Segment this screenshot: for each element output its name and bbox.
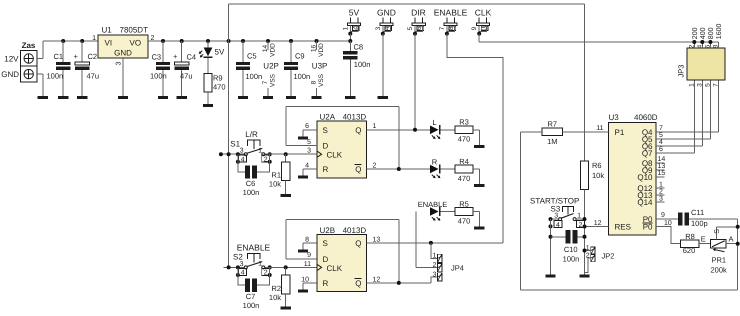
pin 3 label U2A CLK	[307, 148, 311, 155]
resistor R6 10k	[580, 161, 604, 189]
wire JP2 pin 2 to ground	[585, 258, 591, 273]
pin 10 U2B R to ground	[301, 276, 317, 289]
wire LED R to R4	[441, 168, 455, 170]
svg-text:800: 800	[708, 27, 715, 39]
node Q1-DIR	[413, 128, 417, 132]
pin 3 label JP3	[696, 83, 703, 87]
svg-text:100n: 100n	[47, 72, 64, 81]
wire CLK-JP3 pin8	[717, 42, 719, 48]
svg-text:6: 6	[659, 146, 663, 153]
wire Zas GND pin to ground	[37, 74, 43, 96]
svg-text:JP4: JP4	[451, 264, 464, 273]
label GND header	[377, 8, 396, 18]
svg-text:S: S	[714, 229, 721, 234]
resistor R4 470	[455, 157, 473, 183]
wire S2 right to C7	[257, 267, 270, 285]
svg-text:12: 12	[373, 276, 381, 283]
label 400	[700, 27, 707, 39]
pin 5 label JP3	[704, 83, 711, 87]
pin 13 stub Q9	[656, 163, 665, 170]
wire JP4 pin 2 to ENABLE LED	[416, 212, 437, 268]
svg-text:200k: 200k	[711, 266, 728, 275]
capacitor C9 100n	[284, 41, 310, 96]
wire S2 left to C7	[238, 267, 245, 285]
LED L	[430, 118, 441, 139]
svg-text:3: 3	[240, 148, 244, 155]
wire 5V rail	[148, 40, 350, 42]
wire S1 to U2A CLK	[265, 153, 317, 155]
svg-text:8: 8	[712, 44, 719, 48]
svg-text:VSS: VSS	[318, 73, 325, 87]
wire U2B Q output (pin 13)	[367, 236, 503, 243]
svg-text:8: 8	[305, 236, 309, 243]
wire PR1 A to RC node	[726, 235, 738, 244]
svg-text:470: 470	[213, 83, 226, 92]
svg-text:C3: C3	[152, 53, 162, 62]
ground (C1)	[58, 96, 68, 99]
svg-text:R2: R2	[271, 284, 281, 293]
wire PR1 wiper S	[714, 227, 738, 240]
potentiometer PR1 200k	[711, 240, 728, 275]
svg-text:1: 1	[92, 35, 96, 42]
label CLK header	[475, 8, 492, 18]
svg-text:13: 13	[658, 163, 666, 170]
svg-text:470: 470	[458, 216, 471, 225]
LED ENABLE	[418, 200, 448, 221]
svg-text:VDD: VDD	[318, 43, 325, 57]
wire S1 left to C6	[238, 154, 245, 172]
svg-text:C6: C6	[246, 179, 256, 188]
svg-text:U2A: U2A	[320, 113, 336, 122]
pin 4 label JP3	[696, 44, 703, 48]
wire Q7 pin 6 to JP3	[656, 80, 694, 153]
counter U3 4060D	[609, 113, 658, 235]
wire LED L to R3	[441, 129, 455, 131]
svg-text:100n: 100n	[563, 254, 580, 263]
wire JP2 pin 1	[583, 249, 591, 253]
node S2 right	[268, 265, 272, 277]
svg-text:5V: 5V	[215, 48, 225, 57]
node rail-U2P-VDD	[266, 39, 270, 43]
node wiper-RC	[736, 225, 740, 229]
capacitor C7 100n	[243, 279, 260, 311]
svg-text:4: 4	[556, 222, 560, 229]
wire GND header to ground	[382, 34, 384, 97]
svg-text:13: 13	[373, 236, 381, 243]
svg-text:ENABLE: ENABLE	[237, 243, 271, 253]
node CLK-JP3 pin2	[692, 40, 696, 48]
svg-text:470: 470	[458, 135, 471, 144]
wire ENABLE header to Q13 net	[447, 34, 503, 243]
ground (R3)	[474, 145, 484, 148]
svg-text:S2: S2	[233, 253, 243, 262]
svg-text:1: 1	[432, 253, 436, 260]
ground (S3)	[545, 275, 555, 278]
capacitor C5 100n	[236, 41, 262, 96]
svg-text:2: 2	[579, 222, 583, 229]
resistor R9 470	[204, 58, 226, 104]
svg-text:R7: R7	[548, 119, 558, 128]
ground (C9)	[286, 96, 296, 99]
wire P0-bar pin 10 to R8	[656, 220, 680, 244]
node Q2-feedback	[397, 167, 401, 171]
svg-text:Q: Q	[355, 279, 361, 288]
svg-text:2: 2	[264, 156, 268, 163]
svg-text:VDD: VDD	[269, 43, 276, 57]
svg-text:9: 9	[471, 26, 478, 30]
resistor R5 470	[455, 199, 473, 225]
jumper JP2	[586, 245, 615, 262]
LED 5V indicator	[199, 41, 225, 58]
svg-text:4060D: 4060D	[634, 113, 658, 122]
svg-text:1: 1	[688, 83, 695, 87]
node C10 left	[549, 235, 553, 239]
wire R7 to RC node	[520, 132, 542, 290]
resistor R7 1M	[542, 119, 562, 146]
ground (RES net)	[579, 275, 589, 278]
svg-text:R1: R1	[271, 171, 281, 180]
wire DIR net	[414, 34, 416, 130]
label 800	[708, 27, 715, 39]
wire U2B Q-bar output (pin 12)	[367, 276, 431, 283]
pin 4 U2A R to ground	[303, 162, 317, 175]
svg-text:CLK: CLK	[475, 8, 492, 18]
svg-text:1: 1	[659, 181, 663, 188]
svg-text:6: 6	[704, 44, 711, 48]
capacitor C3 100n	[150, 41, 170, 96]
svg-text:12V: 12V	[4, 55, 19, 64]
svg-text:4: 4	[696, 44, 703, 48]
wire frame to R6	[584, 4, 586, 161]
node rail-U3P-VDD	[315, 39, 319, 43]
svg-text:1600: 1600	[716, 24, 723, 40]
wire Q-bar to JP4 pin 3	[431, 277, 438, 283]
ground (R2)	[281, 307, 291, 310]
svg-text:S3: S3	[551, 204, 561, 213]
pin 2 stub Q13	[656, 188, 665, 195]
svg-text:Q7: Q7	[642, 149, 653, 158]
svg-text:100n: 100n	[294, 72, 311, 81]
svg-text:GND: GND	[1, 70, 19, 79]
svg-text:10k: 10k	[592, 171, 604, 180]
node rail-C3	[161, 39, 165, 43]
label ENABLE header	[434, 8, 468, 18]
svg-text:47u: 47u	[87, 72, 100, 81]
ground (GND header)	[378, 96, 388, 99]
svg-text:P1: P1	[615, 128, 625, 137]
wire 5V vertical feed	[228, 4, 230, 267]
wire Q5 pin 5 to JP3	[656, 80, 710, 139]
svg-text:10k: 10k	[269, 180, 281, 189]
ground (C3)	[158, 96, 168, 99]
svg-text:8: 8	[311, 80, 318, 84]
capacitor C4 47u	[173, 41, 196, 96]
pin 14 stub Q8	[656, 156, 665, 163]
svg-text:3: 3	[375, 26, 382, 30]
svg-text:Q: Q	[355, 165, 361, 174]
svg-text:47u: 47u	[180, 72, 193, 81]
svg-text:3: 3	[696, 83, 703, 87]
ground (R1)	[281, 194, 291, 197]
wire S2 row stub	[224, 265, 246, 269]
svg-text:C4: C4	[187, 53, 197, 62]
wire S1 row stub	[219, 152, 245, 156]
svg-text:Q: Q	[355, 239, 361, 248]
label DIR header	[411, 8, 426, 18]
svg-text:+: +	[173, 52, 178, 61]
svg-text:C5: C5	[247, 52, 257, 61]
pin 3 label U1	[116, 61, 123, 65]
header GND pins 3-4	[375, 17, 393, 35]
pin 2 label U1	[151, 35, 155, 42]
pin 8 label JP3	[712, 44, 719, 48]
node CLK-JP3 pin6	[708, 40, 712, 48]
ground (C8)	[345, 96, 355, 99]
power pin U3P VSS 8	[311, 73, 325, 96]
svg-text:VI: VI	[105, 38, 113, 47]
label START/STOP	[530, 196, 579, 205]
capacitor C6 100n	[243, 165, 260, 197]
ground (U1)	[118, 96, 128, 99]
label 200	[692, 27, 699, 39]
svg-text:D: D	[323, 255, 329, 264]
svg-text:1M: 1M	[547, 137, 557, 146]
svg-text:5: 5	[307, 139, 311, 146]
svg-text:C2: C2	[88, 52, 98, 61]
svg-text:2: 2	[432, 262, 436, 269]
svg-text:CLK: CLK	[327, 151, 343, 160]
resistor R1 10k	[269, 154, 290, 194]
ground (C2)	[77, 96, 87, 99]
svg-text:5: 5	[659, 132, 663, 139]
svg-text:4: 4	[305, 162, 309, 169]
svg-text:100p: 100p	[691, 219, 708, 228]
wire C10 left	[551, 236, 566, 238]
svg-text:2: 2	[688, 44, 695, 48]
svg-text:9: 9	[307, 252, 311, 259]
svg-text:C7: C7	[246, 292, 256, 301]
svg-text:7805DT: 7805DT	[120, 25, 149, 34]
svg-text:4013D: 4013D	[343, 113, 367, 122]
pin 5 U2A D feedback	[286, 107, 399, 170]
ground (U2A R)	[298, 176, 308, 179]
pin 11 label U2B CLK	[304, 261, 311, 268]
svg-text:5V: 5V	[349, 8, 360, 18]
node rail-LED	[206, 39, 210, 43]
wire Zas 12V pin to rail	[37, 41, 43, 59]
node rail-C5	[241, 39, 245, 43]
svg-text:Zas: Zas	[22, 41, 36, 50]
jumper JP4	[432, 253, 463, 281]
node C10 right	[583, 235, 587, 239]
ground (C5)	[238, 96, 248, 99]
svg-text:7: 7	[712, 83, 719, 87]
svg-text:1: 1	[577, 212, 581, 219]
svg-text:C1: C1	[54, 52, 64, 61]
svg-text:10: 10	[664, 220, 672, 227]
node rail-C4	[180, 39, 184, 43]
svg-text:CLK: CLK	[327, 264, 343, 273]
ground (U2A S)	[298, 137, 308, 140]
svg-text:100n: 100n	[243, 188, 260, 197]
pin 4 boxed label S2	[239, 268, 247, 276]
capacitor C11 100p	[678, 208, 707, 228]
label 1600	[716, 24, 723, 40]
svg-text:7: 7	[262, 80, 269, 84]
svg-text:L/R: L/R	[245, 130, 258, 139]
resistor R2 10k	[269, 267, 290, 306]
svg-text:7: 7	[439, 26, 446, 30]
wire CLK net	[479, 34, 718, 42]
ground (U2B S)	[298, 250, 308, 253]
svg-text:+: +	[74, 52, 79, 61]
svg-text:100n: 100n	[354, 60, 371, 69]
svg-text:R5: R5	[459, 199, 469, 208]
flip-flop U2A 4013D	[317, 113, 367, 178]
svg-text:P0: P0	[643, 223, 653, 232]
svg-text:3: 3	[240, 261, 244, 268]
resistor R3 470	[455, 118, 473, 144]
wire R7 to P1 pin 11	[563, 125, 609, 132]
svg-text:1: 1	[373, 123, 377, 130]
power pin U2P VDD 14	[262, 41, 276, 57]
svg-text:E: E	[701, 235, 706, 244]
svg-text:U2P: U2P	[263, 62, 279, 71]
pin 7 label JP3	[712, 83, 719, 87]
svg-text:5: 5	[704, 83, 711, 87]
svg-text:S1: S1	[230, 139, 240, 148]
svg-text:ENABLE: ENABLE	[418, 200, 448, 209]
node rail-C9	[289, 39, 293, 43]
svg-text:U1: U1	[102, 25, 113, 34]
node S2 left	[236, 265, 240, 277]
pin 15 stub Q10	[656, 170, 665, 177]
pin 1 label U1	[92, 35, 96, 42]
power pin U2P VSS 7	[262, 73, 276, 96]
svg-text:VSS: VSS	[269, 73, 276, 87]
wire R8 to PR1 (E)	[699, 235, 711, 244]
LED R	[430, 157, 441, 178]
wire RC node bottom	[520, 289, 737, 291]
wire LED ENABLE to R5	[441, 211, 455, 213]
wire P0 pin 9 to C11	[656, 212, 678, 219]
svg-text:2: 2	[373, 162, 377, 169]
svg-text:C10: C10	[564, 245, 578, 254]
svg-text:C8: C8	[354, 43, 364, 52]
svg-text:JP3: JP3	[677, 65, 686, 78]
wire S2 to U2B CLK	[265, 266, 317, 268]
resistor R8 620	[680, 232, 699, 255]
svg-text:4013D: 4013D	[343, 226, 367, 235]
wire U2A Q-bar output	[367, 162, 430, 169]
label 5V header	[349, 8, 360, 18]
wire 12V rail	[43, 40, 98, 42]
svg-text:2: 2	[264, 270, 268, 277]
svg-text:4: 4	[241, 270, 245, 277]
svg-text:R6: R6	[592, 161, 602, 170]
wire 5V top frame	[229, 3, 585, 5]
svg-text:4: 4	[659, 139, 663, 146]
node S3 right	[583, 217, 587, 228]
flip-flop U2B 4013D	[317, 226, 367, 291]
svg-text:U3: U3	[609, 113, 620, 122]
wire C11 to RC node	[689, 219, 738, 290]
node CLK-R1	[284, 152, 288, 156]
pin 4 boxed label S1	[239, 155, 247, 163]
node rail-C2	[80, 39, 84, 43]
svg-text:100n: 100n	[243, 301, 260, 310]
svg-text:12: 12	[594, 220, 602, 227]
node S3 left	[549, 217, 553, 228]
pin 6 U2A S to ground	[303, 123, 317, 136]
wire S3 row	[551, 218, 585, 220]
ground (R4)	[474, 184, 484, 187]
capacitor C2 47u	[74, 41, 100, 96]
wire RES pin 12	[585, 220, 609, 227]
svg-text:7: 7	[659, 125, 663, 132]
label U2P	[263, 62, 279, 71]
pin 1 label JP3	[688, 83, 695, 87]
switch S2	[233, 243, 271, 269]
pin 2 label JP3	[688, 44, 695, 48]
svg-text:3: 3	[307, 148, 311, 155]
node S1 left	[236, 152, 240, 164]
svg-text:R4: R4	[459, 157, 469, 166]
svg-text:3: 3	[432, 271, 436, 278]
node S1 right	[268, 152, 272, 164]
pin 3 stub Q14	[656, 195, 665, 202]
wire Q6 pin 4 to JP3	[656, 80, 702, 146]
header CLK pins 9-10	[471, 17, 489, 35]
svg-text:R3: R3	[459, 118, 469, 127]
wire 5V header to rail	[348, 34, 352, 43]
wire S1 right to C6	[257, 154, 270, 172]
svg-text:R: R	[432, 157, 438, 166]
pin 4 boxed label S3	[554, 221, 562, 229]
node Q13-JP4	[429, 241, 433, 245]
pin 9 U2B D feedback	[286, 220, 399, 283]
wire R6 to RES net	[584, 189, 586, 274]
wire Q13 to JP4 pin 1	[431, 243, 438, 258]
ground (U2P VSS)	[263, 96, 273, 99]
svg-text:RES: RES	[615, 223, 631, 232]
svg-text:3: 3	[659, 195, 663, 202]
ground (U2B R)	[298, 290, 308, 293]
pin 2 boxed label S2	[262, 268, 270, 276]
svg-text:470: 470	[458, 174, 471, 183]
label U3P	[312, 62, 328, 71]
wire U2A Q output	[367, 123, 430, 130]
svg-text:2: 2	[659, 188, 663, 195]
ground (R5)	[474, 227, 484, 230]
svg-text:11: 11	[596, 125, 603, 132]
svg-text:C9: C9	[295, 52, 305, 61]
wire C10 right	[577, 236, 584, 238]
svg-text:Q: Q	[355, 126, 361, 135]
svg-text:A: A	[729, 235, 734, 244]
svg-text:Q10: Q10	[637, 173, 653, 182]
pin 6 label JP3	[704, 44, 711, 48]
svg-text:10k: 10k	[269, 293, 281, 302]
svg-text:400: 400	[700, 27, 707, 39]
svg-text:S: S	[323, 239, 328, 248]
header ENABLE pins 7-8	[439, 17, 457, 35]
svg-text:5: 5	[407, 26, 414, 30]
svg-text:100n: 100n	[246, 72, 263, 81]
ground (R9)	[203, 104, 213, 107]
node A-RC	[736, 242, 740, 246]
svg-text:10: 10	[301, 276, 309, 283]
